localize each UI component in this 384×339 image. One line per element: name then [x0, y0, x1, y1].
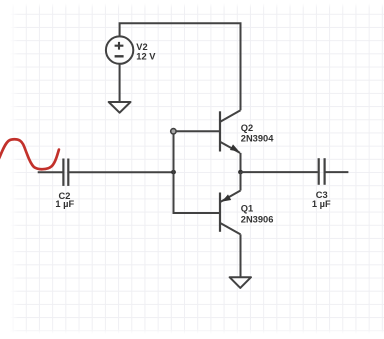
node input junction [171, 170, 176, 175]
svg-text:1 µF: 1 µF [55, 199, 74, 209]
svg-text:Q2: Q2 [241, 123, 253, 133]
wire C2 to input node [69, 171, 173, 173]
label C3 1 uF [312, 190, 331, 209]
wire Q2 emitter to output node [240, 153, 242, 172]
label V2 12 V [136, 42, 156, 61]
ground (below Q1) [230, 277, 251, 288]
label Q2 2N3904 [241, 123, 274, 144]
wire V2 minus to ground [119, 64, 121, 102]
wire Q1 collector to ground [240, 234, 242, 277]
svg-text:12 V: 12 V [136, 51, 156, 61]
wire Q2 base [177, 130, 221, 132]
capacitor C2 [63, 159, 68, 186]
voltage source V2 [106, 36, 133, 63]
svg-text:1 µF: 1 µF [312, 199, 331, 209]
label C2 1 uF [55, 191, 74, 209]
label Q1 2N3906 [241, 204, 274, 225]
node open terminal dot [171, 129, 176, 134]
svg-text:Q1: Q1 [241, 204, 253, 214]
ground (below V2) [109, 102, 131, 113]
wire top rail from V2 to Q2 collector [120, 23, 241, 110]
wire input segment to C2 [38, 171, 63, 173]
node output junction [238, 170, 243, 175]
wire C3 to output end [325, 171, 348, 173]
svg-text:2N3906: 2N3906 [241, 215, 274, 225]
wire output node to Q1 emitter [240, 172, 242, 190]
transistor Q2 [220, 110, 241, 153]
wire base bus vertical [174, 134, 221, 213]
red input signal squiggle [0, 139, 59, 169]
svg-text:2N3904: 2N3904 [241, 134, 274, 144]
capacitor C3 [319, 158, 325, 185]
transistor Q1 [220, 191, 241, 235]
wire output node to C3 [241, 171, 318, 173]
